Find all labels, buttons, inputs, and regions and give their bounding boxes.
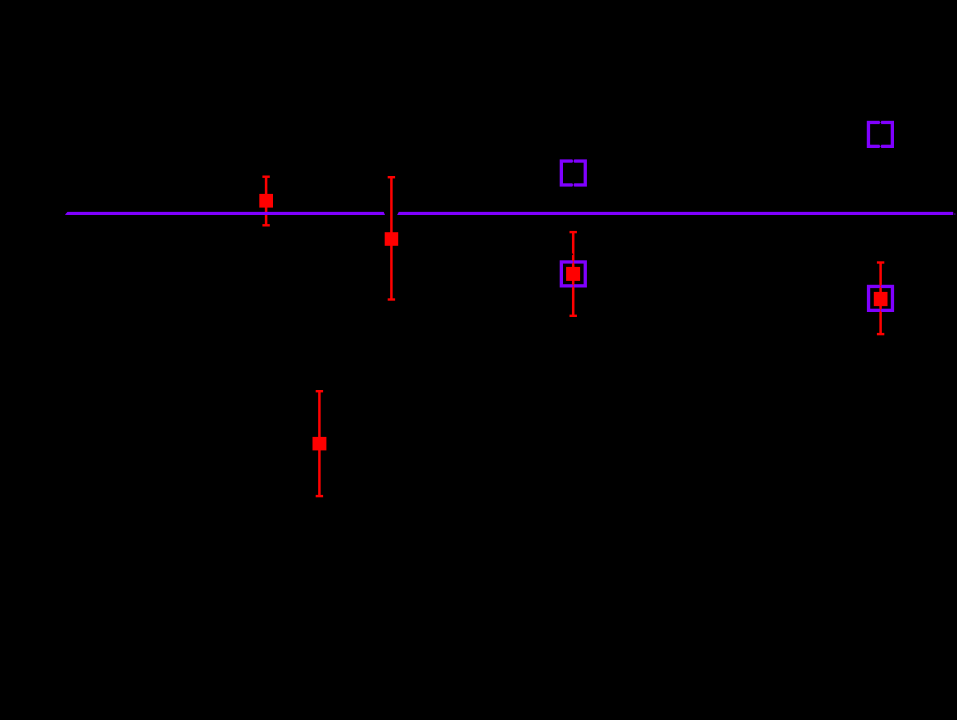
faint fleck at right end of line (954, 213, 956, 215)
purple horizontal line left segment (65, 212, 385, 215)
red reveals through notches of E2 (572, 260, 574, 288)
nick artifact on E error line (572, 253, 574, 256)
red errorbar point E at (573.1,273.9) (566, 231, 580, 317)
purple open square F at (880.4,134.4) (868, 121, 892, 149)
purple horizontal line right segment (397, 212, 953, 215)
purple open square D at (573.3,173.0) (561, 159, 585, 187)
red reveals through notches of G2 (879, 285, 881, 313)
red errorbar point B at (391.4,239.0) (385, 176, 399, 301)
purple open square E2 at (573.3,273.9) over red point E (561, 262, 585, 286)
red errorbar point C at (319.4,443.7) (313, 390, 327, 497)
red errorbar point G at (880.6,299.0) (874, 261, 888, 335)
purple open square G2 at (880.5,298.4) over red point G (869, 286, 893, 310)
red errorbar point A at (266.1,200.7) (259, 176, 273, 227)
